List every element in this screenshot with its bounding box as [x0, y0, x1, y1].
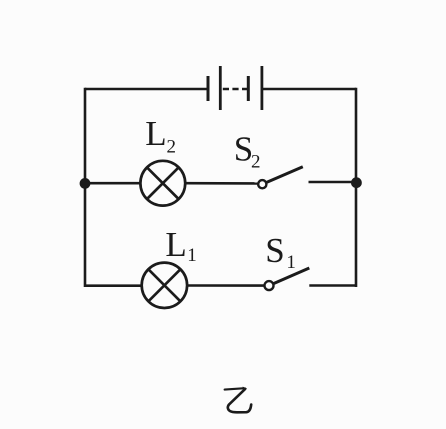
wire lamp L1 to switch S1	[187, 284, 265, 287]
label S1	[265, 231, 296, 273]
lamp L1	[142, 263, 187, 308]
wire switch S1 to bottom-right corner	[309, 284, 356, 287]
wire left vertical	[84, 88, 87, 287]
wire middle branch left	[85, 182, 141, 185]
switch S2 (open)	[258, 167, 303, 188]
wire top-right segment	[262, 88, 356, 91]
battery cell 2 positive plate (long bar)	[260, 66, 263, 110]
label S2	[234, 130, 261, 173]
label L1	[165, 225, 196, 266]
battery cell 2 negative plate (short bar)	[247, 76, 250, 101]
wire lamp L2 to switch S2	[185, 182, 258, 185]
svg-text:L: L	[145, 114, 166, 153]
wire switch S2 to right rail	[309, 181, 357, 184]
caption character 乙 (drawn as path)	[225, 387, 252, 413]
wire bottom-left segment	[85, 284, 142, 287]
svg-text:2: 2	[167, 137, 177, 158]
svg-text:S: S	[265, 231, 284, 270]
svg-text:1: 1	[187, 245, 197, 266]
label L2	[145, 114, 176, 158]
switch S1 (open)	[265, 268, 310, 290]
dashed wire between battery cells	[222, 88, 249, 91]
battery cell 1 positive plate (long bar)	[219, 66, 222, 110]
wire top-left segment	[85, 88, 208, 91]
svg-text:1: 1	[286, 252, 296, 273]
battery cell 1 negative plate (short bar)	[207, 76, 210, 101]
lamp L2	[140, 161, 185, 206]
wire right vertical	[355, 88, 358, 287]
svg-text:L: L	[165, 225, 186, 264]
svg-text:2: 2	[251, 152, 261, 173]
node left junction	[80, 178, 91, 189]
node right junction	[351, 177, 362, 188]
